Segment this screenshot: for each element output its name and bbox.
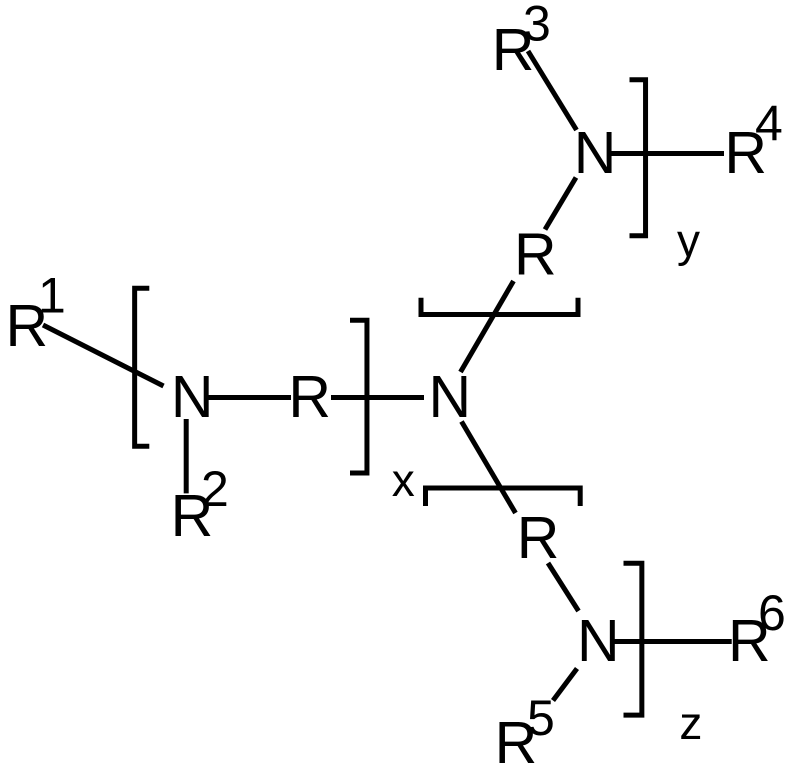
svg-text:N: N [574, 120, 617, 186]
wire: bond R1 to N (left amine) [43, 325, 164, 386]
wire: diagonal bond bottom N down to R5 [553, 669, 577, 701]
svg-text:R: R [288, 364, 331, 430]
svg-text:z: z [679, 697, 702, 749]
bracket ] close bracket of z repeat unit [624, 563, 642, 715]
wire: diagonal bond central N down to R of z unit [462, 422, 516, 514]
wire: diagonal bond R down to bottom N [548, 563, 579, 611]
svg-text:4: 4 [755, 96, 783, 152]
bracket ] close bracket of y repeat unit [630, 80, 646, 236]
wire: diagonal bond R up to top N [545, 178, 576, 230]
wire: diagonal bond R3 down to top N [528, 51, 577, 130]
bracket horizontal open bracket of y repeat unit (ticks up) [421, 298, 578, 315]
wire: bond top N to R4 (horizontal, crosses closing bracket) [611, 151, 724, 156]
wire: bond R to central N (horizontal, crosses closing bracket) [331, 395, 424, 400]
svg-text:5: 5 [527, 690, 555, 746]
svg-text:N: N [429, 364, 472, 430]
wire: diagonal bond central N up to R of y unit [461, 281, 514, 372]
wire: bond N to R (horizontal, x unit) [205, 395, 291, 400]
svg-text:y: y [677, 215, 700, 267]
svg-text:3: 3 [523, 0, 551, 51]
wire: bond bottom N to R6 (horizontal, crosses closing bracket) [614, 639, 732, 644]
svg-text:6: 6 [758, 585, 786, 641]
wire: vertical bond N to R2 [184, 419, 189, 493]
bracket [ left open bracket of x repeat unit [135, 288, 150, 446]
bracket horizontal open bracket of z repeat unit (ticks down) [426, 488, 581, 506]
svg-text:1: 1 [38, 268, 66, 324]
svg-text:x: x [392, 454, 415, 506]
svg-text:R: R [517, 505, 560, 571]
bracket ] right close bracket of x repeat unit [350, 320, 367, 473]
svg-text:2: 2 [201, 461, 229, 517]
svg-text:R: R [514, 222, 557, 288]
svg-text:N: N [577, 608, 620, 674]
